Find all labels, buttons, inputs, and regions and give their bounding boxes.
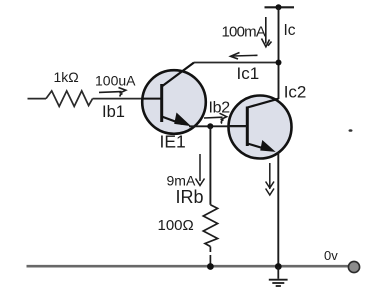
current arrow Ib2 bbox=[204, 113, 227, 123]
ground symbol bbox=[269, 267, 288, 287]
wire: input lead left of R1 bbox=[28, 98, 47, 100]
svg-text:Ib1: Ib1 bbox=[102, 103, 125, 121]
transistor Q2 bbox=[229, 96, 292, 159]
resistor R2 100Ω bbox=[203, 205, 217, 247]
svg-text:100Ω: 100Ω bbox=[158, 217, 194, 234]
svg-text:0v: 0v bbox=[324, 248, 338, 263]
node: top junction bbox=[276, 4, 282, 10]
svg-text:Ic: Ic bbox=[284, 22, 296, 39]
node: rail junction at resistor bbox=[207, 263, 214, 270]
terminal 0v bbox=[348, 261, 359, 272]
wire: Q2 emitter down to rail bbox=[277, 152, 279, 267]
current arrow 100mA bbox=[262, 17, 272, 47]
current arrow IE2 bbox=[266, 163, 274, 195]
wire: Q1 emitter to Q2 base (node bus) bbox=[189, 125, 247, 127]
ground rail 0v bbox=[27, 265, 350, 268]
wire: node down to resistor R2 bbox=[209, 126, 211, 204]
svg-text:Ic1: Ic1 bbox=[237, 64, 260, 83]
current arrow 100uA bbox=[99, 88, 126, 97]
node: collector junction bbox=[276, 60, 282, 66]
wire: R1 to Q1 base bbox=[93, 98, 162, 100]
svg-text:IRb: IRb bbox=[176, 187, 204, 207]
svg-text:IE1: IE1 bbox=[160, 132, 186, 152]
svg-text:100uA: 100uA bbox=[95, 73, 136, 89]
current arrow 9mA bbox=[196, 154, 205, 186]
svg-text:1kΩ: 1kΩ bbox=[54, 69, 79, 85]
node: rail junction at ground bbox=[275, 263, 282, 270]
wire: Ic vertical bbox=[278, 7, 280, 99]
svg-text:Ic2: Ic2 bbox=[284, 83, 307, 102]
stray mark bbox=[349, 129, 353, 132]
transistor Q1 bbox=[142, 63, 206, 134]
wire: Q1 collector to Ic node bbox=[194, 62, 279, 64]
wire: R2 to rail (broken lead) bbox=[209, 247, 211, 265]
svg-text:9mA: 9mA bbox=[167, 172, 196, 188]
top supply bar bbox=[265, 6, 295, 8]
resistor R1 1kΩ bbox=[46, 91, 93, 107]
svg-text:100mA: 100mA bbox=[222, 23, 266, 40]
current arrow Ic1 bbox=[231, 53, 258, 60]
node: emitter junction bbox=[207, 123, 213, 129]
